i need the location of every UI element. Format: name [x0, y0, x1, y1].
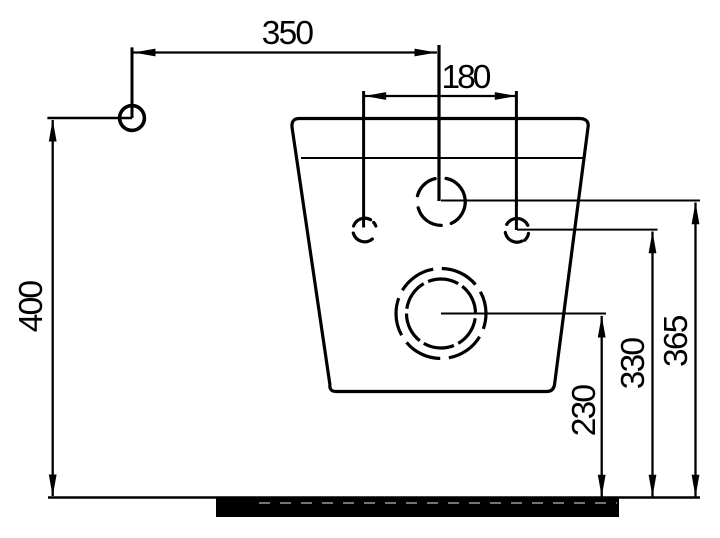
svg-text:350: 350 — [262, 15, 314, 52]
svg-text:180: 180 — [442, 59, 491, 96]
svg-text:365: 365 — [658, 315, 695, 367]
svg-text:230: 230 — [566, 385, 603, 437]
svg-text:330: 330 — [615, 338, 652, 390]
svg-text:400: 400 — [13, 281, 50, 333]
